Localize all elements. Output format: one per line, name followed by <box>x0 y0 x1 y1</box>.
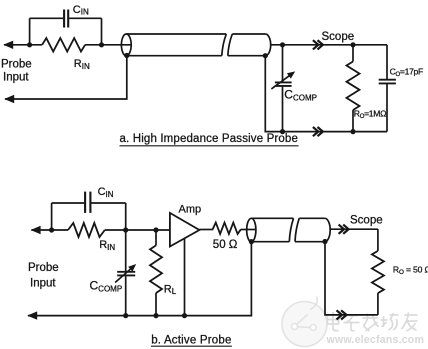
node: main junction C_COMP top (b) <box>123 227 128 232</box>
chevrons top rail (a) <box>313 40 323 49</box>
wire: C_IN top left (b) <box>52 202 85 204</box>
coax cable (a) bottom line seg2 <box>228 55 265 57</box>
svg-text:50 Ω: 50 Ω <box>213 239 238 251</box>
svg-text:Amp: Amp <box>179 204 202 216</box>
svg-text:www.elecfans.com: www.elecfans.com <box>326 334 425 346</box>
wire: C_IN top left (a) <box>30 17 64 19</box>
wire: R_IN right lead (b) <box>105 229 170 231</box>
node: cable (b) left shield <box>249 239 254 244</box>
probe tip arrow (a) <box>3 41 13 49</box>
node: R_0 bottom (a) <box>350 129 355 134</box>
chevrons bottom rail (a) <box>313 127 323 136</box>
svg-text:Scope: Scope <box>350 215 383 227</box>
op-amp buffer Amp (b) <box>170 213 200 247</box>
wire: scope return rail (b) <box>325 242 378 315</box>
coax cable (b) top line seg1 <box>251 217 293 219</box>
coax cable (a) top line seg1 <box>126 33 226 35</box>
watermark chinese characters (approximated strokes) <box>328 312 418 331</box>
node: C_COMP bottom (a) <box>280 129 285 134</box>
chevrons return rail (b) <box>337 310 347 319</box>
ground return arrow (b) <box>27 311 37 319</box>
coax cable (b) bottom line seg2 <box>295 241 325 243</box>
wire: scope lead top rail (a) <box>271 44 387 46</box>
wire: C_IN right riser (a) <box>101 18 103 45</box>
coax cable (b) break slant left <box>289 218 293 241</box>
svg-text:Input: Input <box>30 278 56 290</box>
svg-text:b. Active Probe: b. Active Probe <box>151 335 231 347</box>
svg-text:CO=17pF: CO=17pF <box>390 66 423 77</box>
watermark logo circle <box>282 297 327 347</box>
capacitor C_IN (b) plates <box>84 192 86 213</box>
svg-text:Scope: Scope <box>322 31 355 43</box>
coax cable (b) right cap <box>325 218 330 241</box>
wire: probe input lead (a) <box>4 44 42 46</box>
wire: R_IN right lead (a) <box>85 44 131 46</box>
node: input junction right (a) <box>99 42 104 47</box>
node: C_COMP top (a) <box>280 42 285 47</box>
node: input junction left (b) <box>49 227 54 232</box>
resistor 50 ohm (b) <box>213 223 241 234</box>
wire: probe input lead (b) <box>31 229 68 231</box>
node: C_COMP bottom (b) <box>123 313 128 318</box>
svg-text:Input: Input <box>3 72 29 84</box>
coax cable (b) left ellipse <box>247 218 256 241</box>
node: cable left shield (a) <box>124 53 129 58</box>
chevrons scope lead (b) <box>339 225 349 234</box>
resistor R_IN (b) zigzag <box>68 223 105 237</box>
wire: C_IN left riser (a) <box>29 18 31 45</box>
wire: into cable (b) <box>241 229 256 231</box>
svg-text:Probe: Probe <box>1 58 32 70</box>
svg-text:RO=1MΩ: RO=1MΩ <box>354 109 387 120</box>
node: R_0 top (a) <box>350 42 355 47</box>
coax cable (a) break slant left <box>222 34 227 56</box>
coax cable (b) top line seg2 <box>299 217 325 219</box>
capacitor C_IN (a) plates <box>63 10 65 28</box>
coax cable (a) bottom line seg1 <box>126 55 222 57</box>
wire: C_IN top right (a) <box>69 17 101 19</box>
coax cable (b) break slant right <box>295 218 299 241</box>
coax cable (a) right cap <box>265 34 270 56</box>
node: input junction left (a) <box>27 42 32 47</box>
wire: bottom rail (a) <box>265 56 387 132</box>
capacitor C_COMP (b) <box>125 230 127 271</box>
C_COMP (b) variable arrow <box>115 268 131 282</box>
svg-text:Probe: Probe <box>28 262 59 274</box>
ground return arrow (a) <box>4 95 14 103</box>
probe tip arrow (b) <box>31 226 41 234</box>
coax cable (a) left ellipse <box>121 34 131 56</box>
resistor R_L (b) <box>153 227 158 232</box>
wire: C_IN right riser (b) <box>125 203 127 230</box>
svg-text:RO = 50 Ω: RO = 50 Ω <box>393 265 428 276</box>
capacitor C_COMP (a) <box>282 45 284 82</box>
node: cable shield junction (b) <box>322 239 327 244</box>
ground return wire (a) <box>5 55 127 99</box>
wire: C_IN top right (b) <box>91 202 125 204</box>
node: R_L bottom (b) <box>153 313 158 318</box>
svg-text:a. High Impedance Passive Prob: a. High Impedance Passive Probe <box>120 133 299 145</box>
C_COMP (a) variable arrow <box>271 75 290 89</box>
wire: amp output (b) <box>199 229 213 231</box>
wire: scope lead (b) <box>329 228 378 230</box>
ground return wire (b) <box>28 242 251 316</box>
node: cable shield junction (a) <box>263 53 268 58</box>
coax cable (a) top line seg2 <box>232 33 265 35</box>
capacitor C_0 (a) <box>386 45 388 79</box>
node: amp leg bottom (b) <box>182 313 187 318</box>
resistor R_0 (b) <box>377 229 379 251</box>
resistor R_0 (a) <box>352 45 354 62</box>
coax cable (a) break slant right <box>228 34 233 56</box>
amp ground leg (b) <box>184 238 186 315</box>
wire: C_IN left riser (b) <box>51 203 53 230</box>
coax cable (b) bottom line seg1 <box>251 241 289 243</box>
resistor R_IN (a) zigzag <box>42 38 85 51</box>
